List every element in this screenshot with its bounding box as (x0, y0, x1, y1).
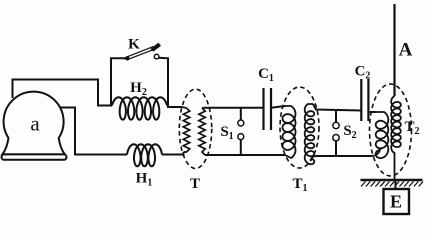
svg-text:S2: S2 (343, 123, 356, 141)
transformer T1 dashed core (280, 87, 319, 168)
wire T1 secondary top bus (313, 104, 361, 111)
wire generator-right to H1 (61, 108, 128, 155)
key K lever (127, 44, 160, 60)
transformer T2 primary coil (372, 112, 388, 158)
svg-text:C2: C2 (355, 64, 371, 82)
wire T1 secondary bottom bus (313, 155, 372, 158)
wire S2 bottom (335, 141, 337, 156)
svg-text:H1: H1 (136, 171, 153, 189)
spark gap S1 upper ball (238, 120, 244, 126)
capacitor C2 (361, 79, 368, 121)
ground hatching (361, 182, 423, 187)
antenna A wire (393, 4, 395, 96)
transformer T dashed core (179, 89, 211, 168)
wire C1 to T1 (271, 106, 285, 108)
capacitor C1 (264, 88, 272, 130)
wire key loop left (111, 58, 126, 105)
svg-text:A: A (399, 40, 413, 61)
key K contact (154, 54, 159, 59)
wire H1 to T primary bottom (162, 152, 184, 155)
wire key loop right (159, 58, 182, 107)
svg-text:T2: T2 (404, 119, 419, 137)
earth E box (384, 189, 410, 214)
wire S1 top (240, 108, 242, 120)
spark gap S2 lower ball (333, 135, 339, 141)
generator a (2, 92, 67, 160)
svg-text:a: a (30, 112, 40, 136)
key K pivot (125, 56, 129, 60)
spark gap S2 upper ball (333, 122, 339, 128)
wire C2 to T2 (368, 111, 376, 113)
inductor H1 (127, 144, 162, 166)
wire generator-top to H2 junction (13, 80, 113, 106)
svg-text:T: T (190, 176, 200, 192)
svg-text:T1: T1 (292, 176, 307, 194)
wire T secondary top bus (202, 107, 263, 109)
svg-text:E: E (390, 192, 402, 212)
svg-text:S1: S1 (220, 124, 233, 142)
inductor H2 (112, 97, 167, 119)
transformer T2 dashed core (370, 84, 412, 176)
wire S2 top (335, 110, 337, 122)
wire T secondary bottom bus (205, 154, 285, 156)
svg-text:H2: H2 (130, 80, 147, 98)
spark gap S1 lower ball (238, 134, 244, 140)
ground line (361, 179, 423, 181)
transformer T secondary winding (199, 108, 205, 155)
transformer T1 primary coil (283, 106, 296, 158)
transformer T1 secondary coil (305, 104, 315, 164)
svg-text:C1: C1 (258, 66, 274, 84)
transformer T2 secondary coil (391, 96, 401, 179)
wire S1 bottom (240, 140, 242, 155)
svg-text:K: K (128, 37, 140, 53)
transformer T primary winding (182, 107, 190, 152)
wire ground to E (395, 180, 397, 189)
